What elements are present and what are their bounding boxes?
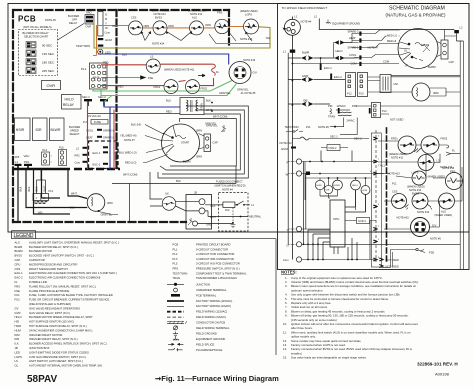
motor leads xyxy=(143,125,168,163)
IDR relay box xyxy=(33,118,48,141)
legend tab xyxy=(12,231,277,355)
pointer line chart to switch xyxy=(58,24,85,41)
svg-text:TRAN: TRAN xyxy=(328,115,335,119)
svg-text:FRS2: FRS2 xyxy=(201,87,208,91)
svg-text:ALS: ALS xyxy=(441,210,446,214)
HSIR contacts schematic xyxy=(288,74,345,82)
svg-text:FUSE OR CIRCUIT BREAKER, CURRE: FUSE OR CIRCUIT BREAKER, CURRENT INTERRU… xyxy=(29,298,110,302)
right rail L2 double conductor xyxy=(457,33,464,41)
HSI plug block xyxy=(33,169,54,215)
plug ground arrow xyxy=(283,28,288,31)
svg-text:LGPS: LGPS xyxy=(412,171,419,175)
svg-text:CAP: CAP xyxy=(15,258,21,262)
svg-text:YEL (MED-HI): YEL (MED-HI) xyxy=(120,134,137,138)
PL2 connector xyxy=(42,148,53,165)
FL fusible link schematic xyxy=(439,145,460,155)
EAC-1 terminal xyxy=(93,146,109,155)
svg-text:BLK (HI): BLK (HI) xyxy=(131,123,141,127)
wires frs row xyxy=(378,141,464,181)
svg-text:PL5: PL5 xyxy=(59,146,64,150)
equipment ground symbol xyxy=(173,337,179,341)
L2 PR2 Com terminals xyxy=(75,147,88,165)
svg-text:IDR: IDR xyxy=(36,128,43,132)
svg-text:FRS1: FRS1 xyxy=(391,137,398,141)
BVSS schematic xyxy=(412,193,428,209)
svg-text:GRN/YEL: GRN/YEL xyxy=(205,122,217,126)
svg-text:PCB: PCB xyxy=(173,243,179,247)
factory wiring 24vac symbol xyxy=(167,305,184,307)
Com terminal xyxy=(283,257,376,262)
svg-text:FSE: FSE xyxy=(15,289,21,293)
svg-text:NOT USED: NOT USED xyxy=(386,265,399,269)
svg-text:GRN/YEL: GRN/YEL xyxy=(219,91,231,95)
svg-text:RED: RED xyxy=(118,85,124,89)
svg-text:RED: RED xyxy=(103,61,109,65)
PCB board bottom heavy bus xyxy=(14,168,70,170)
svg-text:HUM: HUM xyxy=(317,185,322,187)
svg-text:NOTE #14: NOTE #14 xyxy=(409,188,422,192)
svg-text:FIELD WIRING TERMINAL: FIELD WIRING TERMINAL xyxy=(196,326,230,330)
PL1 connector block xyxy=(81,63,107,89)
svg-text:BVSS: BVSS xyxy=(155,16,162,20)
induced draft motor IDM xyxy=(87,194,118,217)
svg-text:HSI: HSI xyxy=(38,211,43,215)
PL5 connector xyxy=(59,146,67,166)
svg-text:BLOWER MOTOR: BLOWER MOTOR xyxy=(29,249,52,253)
svg-text:INDUCED DRAFT MOTOR: INDUCED DRAFT MOTOR xyxy=(29,333,62,337)
svg-text:PL1: PL1 xyxy=(392,182,397,186)
OVR box xyxy=(42,81,61,90)
legend symbols xyxy=(167,283,187,352)
factory wiring 115vac symbol xyxy=(167,300,184,302)
svg-text:OFF: OFF xyxy=(72,18,78,22)
relay coil HELO xyxy=(351,180,361,190)
svg-text:SEC-1: SEC-1 xyxy=(330,135,338,139)
svg-text:W: W xyxy=(286,173,289,177)
switch FRS1 xyxy=(164,80,178,94)
svg-text:24VAC HUMIDIFIER CONNECTION (.: 24VAC HUMIDIFIER CONNECTION (.5 AMP MAX.… xyxy=(29,328,93,332)
casing dashed in schematic xyxy=(386,128,388,264)
NOT USED pins xyxy=(379,258,399,269)
svg-text:-FL NOTE #5: -FL NOTE #5 xyxy=(240,91,256,95)
svg-text:225 SEC: 225 SEC xyxy=(42,69,55,73)
svg-text:HELO: HELO xyxy=(352,185,358,187)
switch LS xyxy=(146,59,160,73)
svg-text:7 PL1: 7 PL1 xyxy=(378,164,385,168)
svg-text:BLK: BLK xyxy=(70,206,75,210)
cool spare-1 terminals xyxy=(86,129,114,133)
svg-text:FSE: FSE xyxy=(429,251,434,255)
svg-text:BLWR: BLWR xyxy=(334,185,341,187)
legend column 1 xyxy=(15,240,119,367)
capacitor CAP xyxy=(197,129,219,159)
splice arrows als-lgps xyxy=(209,32,252,44)
svg-text:HSIR: HSIR xyxy=(16,128,25,132)
fused disconnect box xyxy=(212,180,262,232)
IDM schematic xyxy=(368,83,460,101)
L1 pcb terminal xyxy=(15,164,22,169)
svg-text:9.: 9. xyxy=(285,314,288,318)
svg-text:NOTE #11: NOTE #11 xyxy=(190,12,203,16)
svg-text:HSI: HSI xyxy=(15,320,20,324)
svg-text:OVR: OVR xyxy=(86,25,92,29)
svg-text:(WHEN USED): (WHEN USED) xyxy=(407,185,425,189)
HSI element schematic xyxy=(368,75,460,93)
svg-text:PL1: PL1 xyxy=(173,247,178,251)
svg-text:FUSIBLE LINK: FUSIBLE LINK xyxy=(29,280,48,284)
wire GRN gas valve ground xyxy=(93,81,237,96)
PL3 connector transformer schematic xyxy=(356,103,460,118)
svg-text:PRESSURE SWITCH, SPST-(N.O.): PRESSURE SWITCH, SPST-(N.O.) xyxy=(196,267,240,271)
svg-text:WHT: WHT xyxy=(71,192,77,196)
L2 neutral bracket xyxy=(319,19,454,30)
blower off delay dip switch xyxy=(85,15,94,25)
svg-text:START: START xyxy=(181,141,190,145)
svg-text:FRS2: FRS2 xyxy=(441,137,448,141)
svg-text:BLOWER MOTOR RELAY, SPST (N.O.: BLOWER MOTOR RELAY, SPST (N.O.) xyxy=(29,245,78,249)
svg-text:LEGEND: LEGEND xyxy=(14,233,34,239)
svg-text:NOT USED: NOT USED xyxy=(386,258,399,262)
svg-text:NOTE #7: NOTE #7 xyxy=(368,45,379,49)
svg-text:2-CIRCUIT PCB CONNECTOR: 2-CIRCUIT PCB CONNECTOR xyxy=(196,252,234,256)
switch FRS2 xyxy=(186,80,200,94)
HUM pcb terminal xyxy=(98,38,113,42)
splice arrows css-bvss xyxy=(141,32,151,41)
svg-text:58PAV: 58PAV xyxy=(27,374,58,385)
svg-text:ELECTRONIC AIR CLEANER CONNECT: ELECTRONIC AIR CLEANER CONNECTION (COMMO… xyxy=(29,276,100,280)
svg-text:ALS: ALS xyxy=(192,16,197,20)
left rail L1 xyxy=(291,35,293,259)
svg-text:IDM: IDM xyxy=(15,333,21,337)
svg-text:GV: GV xyxy=(253,71,257,75)
FSE schematic xyxy=(381,237,441,268)
svg-text:NOTE #5: NOTE #5 xyxy=(430,237,441,241)
plug receptacle symbol xyxy=(168,348,183,351)
svg-text:SCHEMATIC DIAGRAM: SCHEMATIC DIAGRAM xyxy=(389,6,445,12)
line power plug xyxy=(284,17,300,36)
furnace casing heavy dashed left xyxy=(12,10,14,222)
svg-text:DRAFT SAFEGUARD SWITCH: DRAFT SAFEGUARD SWITCH xyxy=(29,267,68,271)
svg-text:IDM: IDM xyxy=(107,201,113,205)
svg-text:WHT: WHT xyxy=(43,185,47,191)
svg-text:135 SEC: 135 SEC xyxy=(42,52,55,56)
svg-text:SPARE-2: SPARE-2 xyxy=(103,136,114,140)
svg-text:FUSE: FUSE xyxy=(94,120,101,124)
furnace casing heavy dashed top xyxy=(14,9,229,11)
svg-text:PRS: PRS xyxy=(450,170,456,174)
svg-text:PL2: PL2 xyxy=(173,252,178,256)
conductor on pcb symbol xyxy=(167,322,184,324)
junction symbol xyxy=(167,283,184,285)
svg-text:BRN: BRN xyxy=(197,155,203,159)
svg-text:PCB TERMINAL: PCB TERMINAL xyxy=(196,293,217,297)
svg-text:START: START xyxy=(421,43,430,47)
svg-text:NOTE #12: NOTE #12 xyxy=(280,141,293,145)
svg-text:AUXILIARY LIMIT SWITCH, OVERTE: AUXILIARY LIMIT SWITCH, OVERTEMP; MANUAL… xyxy=(29,240,119,244)
svg-text:TWO: TWO xyxy=(86,11,92,15)
interlock switch ILK xyxy=(150,172,186,211)
svg-text:JUNCTION BOX: JUNCTION BOX xyxy=(29,346,50,350)
svg-text:EAC-1: EAC-1 xyxy=(15,271,24,275)
svg-text:NOTE #7: NOTE #7 xyxy=(124,138,135,142)
svg-text:PLUG/RECEPTACLE: PLUG/RECEPTACLE xyxy=(196,348,223,352)
legend column 2 xyxy=(173,243,247,352)
wire RED limit loop upper xyxy=(101,64,214,85)
schematic capacitor xyxy=(437,30,457,65)
EAC accessory dashed box xyxy=(89,141,119,169)
svg-text:LGPS: LGPS xyxy=(245,13,252,17)
svg-text:NOTE #15: NOTE #15 xyxy=(442,166,455,170)
svg-text:GVR: GVR xyxy=(363,190,368,192)
svg-text:RELAY: RELAY xyxy=(63,103,75,107)
svg-text:SPARE-1: SPARE-1 xyxy=(103,129,114,133)
svg-text:HI/LO: HI/LO xyxy=(15,315,22,319)
HI/LO relay box xyxy=(62,95,82,110)
svg-text:TEST/TWIN: TEST/TWIN xyxy=(76,44,90,48)
dip switch 225 sec xyxy=(26,67,55,74)
svg-text:Com: Com xyxy=(75,161,80,165)
svg-text:BLWM: BLWM xyxy=(428,65,436,69)
svg-text:ILK: ILK xyxy=(165,192,169,196)
svg-text:EAC-2: EAC-2 xyxy=(334,75,342,79)
svg-text:SPEED: SPEED xyxy=(70,129,79,133)
svg-text:Y: Y xyxy=(287,228,289,232)
svg-text:SELECT: SELECT xyxy=(70,132,81,136)
switch CSS xyxy=(129,21,143,35)
svg-text:CAPACITOR: CAPACITOR xyxy=(29,258,45,262)
svg-text:PL2: PL2 xyxy=(49,189,54,193)
svg-text:TO 115VAC FIELD DISCONNECT: TO 115VAC FIELD DISCONNECT xyxy=(282,6,328,10)
svg-text:FIELD WIRING (115VAC): FIELD WIRING (115VAC) xyxy=(196,310,227,314)
svg-text:GVR-1: GVR-1 xyxy=(358,219,366,223)
pcb terminal symbol xyxy=(171,294,180,297)
IDR contacts schematic xyxy=(288,99,330,107)
svg-text:DELAY: DELAY xyxy=(69,21,78,25)
svg-text:CSS: CSS xyxy=(131,16,137,20)
blower speed select label xyxy=(69,125,80,136)
svg-text:FLAME ROLLOUT SW, MANUAL RESET: FLAME ROLLOUT SW, MANUAL RESET, SPST (N.… xyxy=(29,284,96,288)
svg-text:3.: 3. xyxy=(285,284,288,288)
svg-text:JUNCTION: JUNCTION xyxy=(196,282,210,286)
svg-text:NOTE #6: NOTE #6 xyxy=(45,18,56,22)
svg-text:322869-101 REV. H: 322869-101 REV. H xyxy=(417,362,458,367)
svg-text:W: W xyxy=(105,26,108,30)
svg-text:TEST/TWIN: TEST/TWIN xyxy=(285,125,299,129)
outer border wiring diagram box xyxy=(8,4,469,233)
svg-text:BLOWER MOTOR SPEED-CHANGE RELA: BLOWER MOTOR SPEED-CHANGE RELAY, SPDT xyxy=(29,315,93,319)
svg-text:HEAT: HEAT xyxy=(349,36,356,40)
svg-text:NOTE #16: NOTE #16 xyxy=(243,58,256,62)
svg-text:115VAC: 115VAC xyxy=(337,104,346,108)
svg-text:GRN/YEL: GRN/YEL xyxy=(237,88,249,92)
svg-text:NOTE #4: NOTE #4 xyxy=(301,20,312,24)
svg-text:ORN: ORN xyxy=(205,23,211,27)
CSS schematic xyxy=(392,194,407,209)
svg-text:BLK: BLK xyxy=(176,179,181,183)
svg-text:Factory connected when BVSS is: Factory connected when BVSS is not used.… xyxy=(291,347,412,351)
PR1 pcb terminal xyxy=(24,164,32,169)
wire GRN diag sec2 xyxy=(104,96,112,102)
svg-text:FSE: FSE xyxy=(148,76,153,80)
svg-text:PRINTED CIRCUIT BOARD: PRINTED CIRCUIT BOARD xyxy=(196,243,230,247)
wire YEL thermostat xyxy=(94,22,270,48)
L1 terminal xyxy=(290,50,295,53)
svg-text:BLU: BLU xyxy=(166,99,171,103)
svg-text:LS: LS xyxy=(15,359,19,363)
switch PRS xyxy=(215,19,229,33)
svg-text:NOTES:: NOTES: xyxy=(281,270,297,275)
svg-text:HUM: HUM xyxy=(281,147,288,151)
svg-text:(WHEN USED): (WHEN USED) xyxy=(389,152,407,156)
svg-text:COM: COM xyxy=(383,60,389,64)
svg-text:LIGHT-EMITTING DIODE FOR STATU: LIGHT-EMITTING DIODE FOR STATUS CODES xyxy=(29,350,89,354)
SEC-1 terminal xyxy=(82,95,92,106)
svg-text:OL: OL xyxy=(404,49,408,53)
svg-text:LS: LS xyxy=(437,159,440,163)
svg-text:OL: OL xyxy=(15,364,19,368)
svg-text:BLOWER OFF DELAY: BLOWER OFF DELAY xyxy=(23,31,49,35)
field wiring 115vac symbol xyxy=(167,311,184,313)
svg-text:NOT USED: NOT USED xyxy=(390,118,403,122)
LED xyxy=(98,49,112,54)
splice arrows frs xyxy=(414,148,421,153)
svg-text:JB: JB xyxy=(194,191,197,195)
TEST/TWIN pcb terminal xyxy=(76,44,103,48)
svg-text:Y: Y xyxy=(105,22,107,26)
equipment ground symbol xyxy=(326,20,331,24)
svg-text:WHT: WHT xyxy=(210,215,216,219)
svg-text:Com: Com xyxy=(283,258,288,262)
svg-text:FU2: FU2 xyxy=(15,298,21,302)
PRS schematic xyxy=(446,173,463,190)
svg-text:COMPONENT TEST & TWIN TERMINAL: COMPONENT TEST & TWIN TERMINAL xyxy=(196,271,247,275)
relay coil BLWR xyxy=(333,180,343,190)
svg-text:PL3: PL3 xyxy=(359,92,364,96)
svg-text:BLOWER: BLOWER xyxy=(69,125,80,129)
svg-text:FIELD WIRING (24VAC): FIELD WIRING (24VAC) xyxy=(196,315,226,319)
svg-text:GRN/YEL: GRN/YEL xyxy=(101,213,113,217)
svg-text:MED-LO: MED-LO xyxy=(387,34,397,38)
heat spare-2 terminals xyxy=(86,136,114,140)
svg-text:IDM: IDM xyxy=(433,91,439,95)
svg-text:NOTE #11: NOTE #11 xyxy=(391,156,404,160)
schematic outer box xyxy=(278,4,470,270)
transformer TRAN xyxy=(180,98,204,115)
spare-2 heat terminals xyxy=(344,30,362,43)
field ground symbol xyxy=(173,332,178,337)
svg-text:OVR: OVR xyxy=(47,83,56,88)
svg-text:BLK: BLK xyxy=(206,99,211,103)
tran primary leads xyxy=(113,110,115,170)
svg-text:NEUTRAL: NEUTRAL xyxy=(249,215,262,219)
FU1 fuse schematic xyxy=(300,137,309,140)
GVR-1 contact box xyxy=(345,218,376,224)
vertical power wires from PCB xyxy=(18,169,87,222)
svg-text:BLK: BLK xyxy=(19,186,23,191)
blower off delay switch label xyxy=(68,11,92,29)
svg-text:BVSS: BVSS xyxy=(412,192,419,196)
svg-text:PCB: PCB xyxy=(18,15,36,24)
svg-text:11.: 11. xyxy=(283,330,287,334)
wire RED sec-1 down xyxy=(87,102,89,170)
blower motor BLWM xyxy=(162,124,200,162)
relay coil IDR xyxy=(324,185,332,193)
svg-text:HI/LO: HI/LO xyxy=(65,98,74,102)
svg-text:BLK: BLK xyxy=(27,186,31,191)
svg-text:BLWR: BLWR xyxy=(51,128,61,132)
switch BVSS xyxy=(153,21,167,35)
svg-text:MICROPROCESSOR AND CIRCUITRY: MICROPROCESSOR AND CIRCUITRY xyxy=(29,262,78,266)
svg-text:BRN: BRN xyxy=(197,129,203,133)
svg-text:(SWITCH) (WHEN REQ'D): (SWITCH) (WHEN REQ'D) xyxy=(215,184,246,188)
svg-text:BLWR: BLWR xyxy=(302,51,309,55)
G terminal xyxy=(287,242,461,248)
switch ALS xyxy=(190,21,204,35)
svg-text:ELECTRONIC AIR CLEANER CONNECT: ELECTRONIC AIR CLEANER CONNECTION (115 V… xyxy=(29,271,117,275)
casing dashed segment near PCB xyxy=(115,10,117,167)
svg-text:FIELD GROUND: FIELD GROUND xyxy=(196,331,217,335)
field wiring terminal symbol xyxy=(174,326,178,330)
svg-text:HOT SURFACE IGNITOR (115 VAC): HOT SURFACE IGNITOR (115 VAC) xyxy=(29,320,74,324)
svg-text:GVR: GVR xyxy=(15,311,21,315)
svg-text:HOT SURFACE IGNITOR RELAY, SPS: HOT SURFACE IGNITOR RELAY, SPST (N.O.) xyxy=(29,324,87,328)
svg-text:YEL: YEL xyxy=(266,36,271,40)
wire RED sec-1 to tran xyxy=(88,113,181,115)
LGPS schematic xyxy=(412,171,426,185)
svg-text:(WHEN USED): (WHEN USED) xyxy=(240,9,258,13)
wire YEL lgps bypass xyxy=(216,43,270,45)
svg-text:(NOT ON ALL MODELS): (NOT ON ALL MODELS) xyxy=(23,25,52,29)
svg-text:NOTE #4: NOTE #4 xyxy=(222,188,233,192)
svg-text:10.: 10. xyxy=(283,322,287,326)
svg-text:EAC-1: EAC-1 xyxy=(324,66,332,70)
svg-text:FACTORY WIRING (24VAC): FACTORY WIRING (24VAC) xyxy=(196,304,231,308)
svg-text:CPU: CPU xyxy=(333,217,339,221)
svg-text:LOW GAS PRESSURE SWITCH, SPST: LOW GAS PRESSURE SWITCH, SPST (N.O.) xyxy=(29,355,86,359)
motor speed labels xyxy=(362,30,400,58)
svg-text:BLU: BLU xyxy=(122,53,127,57)
PL1 pin connector dashed xyxy=(370,130,381,267)
svg-text:ORN: ORN xyxy=(168,24,174,28)
svg-text:GND: GND xyxy=(206,223,212,227)
wire BLU gas valve xyxy=(98,54,229,65)
blower relay contacts BLWR xyxy=(288,51,333,61)
svg-text:NOTE #14: NOTE #14 xyxy=(152,42,165,46)
com terminal motor xyxy=(292,60,400,67)
PL2 PL3 connector boxes schematic xyxy=(346,73,368,97)
svg-text:WHT (COM): WHT (COM) xyxy=(213,115,227,119)
svg-text:FU2: FU2 xyxy=(225,209,230,212)
svg-text:TRANSFORMER 115VAC/24VAC: TRANSFORMER 115VAC/24VAC xyxy=(196,276,237,280)
spare-1 cool terminals xyxy=(344,46,362,60)
R terminal xyxy=(287,159,377,165)
svg-text:A00198: A00198 xyxy=(435,372,450,377)
svg-text:ILK: ILK xyxy=(15,342,19,346)
svg-text:CAP: CAP xyxy=(213,141,219,145)
svg-text:LS: LS xyxy=(150,55,153,59)
svg-text:FUSED DISCONNECT: FUSED DISCONNECT xyxy=(216,180,243,184)
svg-text:LIMIT SWITCH, AUTO RESET, SPST: LIMIT SWITCH, AUTO RESET, SPST (N.C.) xyxy=(29,359,83,363)
svg-text:SELECTION CHART: SELECTION CHART xyxy=(24,35,49,39)
svg-text:BLWR: BLWR xyxy=(15,245,23,249)
svg-text:LGPS: LGPS xyxy=(15,355,23,359)
svg-text:FUSE, 3 AMP, AUTOMOTIVE BLADE: FUSE, 3 AMP, AUTOMOTIVE BLADE TYPE, FACT… xyxy=(29,293,113,297)
blower off delay selection chart box xyxy=(19,30,58,76)
svg-text:(WHEN USED): (WHEN USED) xyxy=(188,9,206,13)
svg-text:BLOWER ACCESS PANEL INTERLOCK: BLOWER ACCESS PANEL INTERLOCK SWITCH, SP… xyxy=(29,342,107,346)
test/twin terminal xyxy=(285,125,304,132)
relay coil GVR xyxy=(361,186,370,195)
